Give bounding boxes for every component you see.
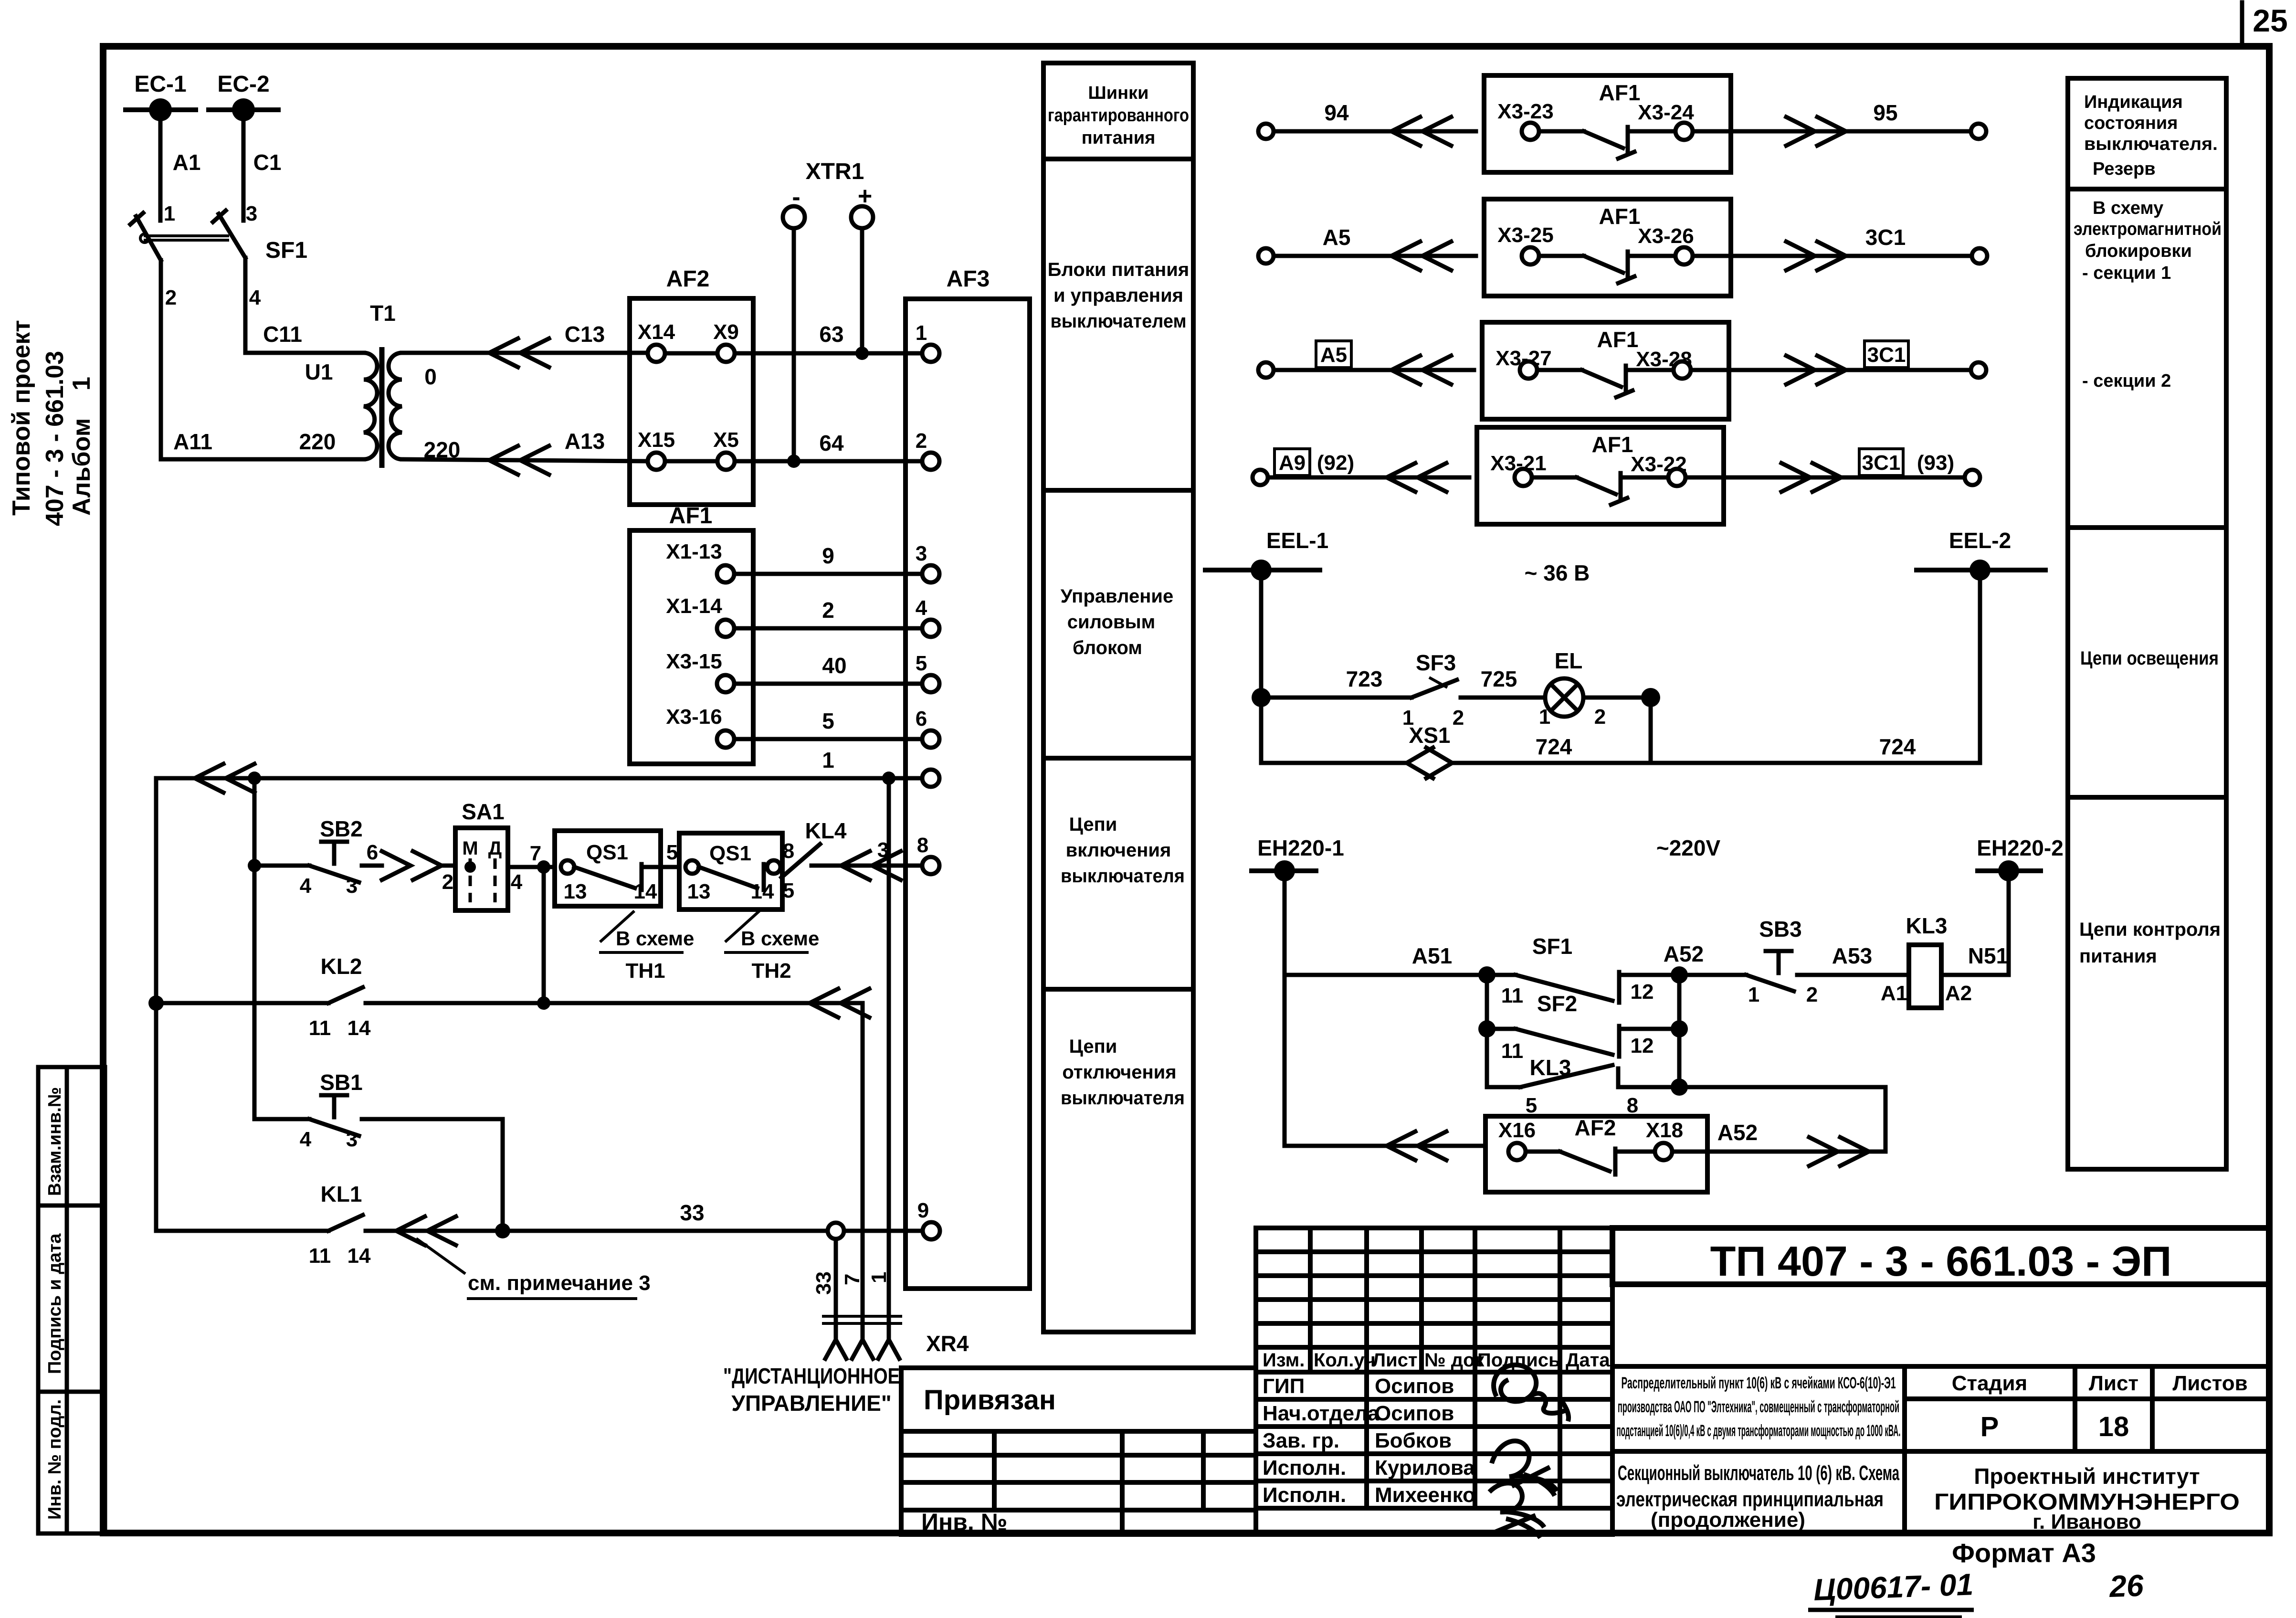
junction wire1 branch — [882, 772, 895, 785]
svg-text:X15: X15 — [638, 428, 675, 452]
sheet name text — [1616, 1461, 1899, 1532]
junction SF2 right — [1671, 1020, 1688, 1037]
svg-text:KL1: KL1 — [321, 1182, 362, 1206]
junction SF2 left — [1478, 1020, 1496, 1037]
svg-text:состояния: состояния — [2084, 113, 2178, 133]
svg-text:9: 9 — [917, 1199, 929, 1222]
svg-text:Взам.инв.№: Взам.инв.№ — [45, 1087, 65, 1196]
svg-text:3: 3 — [246, 202, 257, 225]
svg-text:XR4: XR4 — [926, 1331, 969, 1356]
svg-text:отключения: отключения — [1062, 1062, 1176, 1083]
svg-text:A53: A53 — [1832, 943, 1872, 968]
wire 1 — [156, 748, 922, 793]
left branch vertical — [1485, 975, 1489, 1087]
svg-text:Индикация: Индикация — [2084, 92, 2183, 112]
svg-text:X16: X16 — [1498, 1119, 1536, 1142]
svg-text:Формат А3: Формат А3 — [1952, 1538, 2096, 1568]
row1 right terminal — [1971, 124, 1986, 139]
svg-text:X5: X5 — [713, 428, 739, 452]
svg-text:Инв. № подл.: Инв. № подл. — [45, 1399, 65, 1520]
svg-text:Осипов: Осипов — [1375, 1402, 1454, 1425]
svg-text:A52: A52 — [1664, 941, 1704, 966]
bus EEL-2 — [1914, 528, 2048, 581]
svg-text:5: 5 — [1526, 1094, 1537, 1117]
pin X3-15 — [666, 650, 734, 692]
svg-text:питания: питания — [2079, 946, 2157, 967]
wire 3 to AF3 pin 8 — [811, 838, 922, 880]
svg-text:X14: X14 — [638, 320, 675, 344]
svg-text:В схеме: В схеме — [616, 927, 694, 950]
wire 33 — [680, 1200, 923, 1239]
label Цепи отключения выключателя — [1061, 1036, 1185, 1109]
svg-text:ТН1: ТН1 — [625, 959, 665, 983]
wire 95 — [1693, 100, 1971, 146]
svg-text:11: 11 — [1501, 984, 1524, 1007]
AF3 pin 9 — [917, 1199, 940, 1239]
svg-text:SB2: SB2 — [320, 816, 362, 841]
svg-text:AF2: AF2 — [1575, 1115, 1616, 1140]
wire 63 — [735, 322, 922, 353]
svg-text:8: 8 — [917, 834, 928, 857]
svg-text:A1: A1 — [173, 150, 201, 175]
svg-text:XTR1: XTR1 — [806, 159, 864, 184]
svg-text:4: 4 — [249, 286, 261, 309]
svg-text:1: 1 — [1748, 983, 1759, 1006]
left stamp boxes — [38, 1067, 105, 1533]
svg-text:EH220-2: EH220-2 — [1977, 835, 2064, 860]
AF1 contact box row4 — [1477, 427, 1724, 524]
svg-text:18: 18 — [2098, 1411, 2129, 1442]
svg-text:(продолжение): (продолжение) — [1651, 1508, 1805, 1532]
svg-text:Типовой проект: Типовой проект — [8, 320, 35, 516]
wire A52 from X18 — [1672, 1120, 1885, 1166]
svg-text:5: 5 — [783, 879, 794, 902]
svg-text:7: 7 — [530, 842, 541, 865]
svg-text:C11: C11 — [263, 322, 302, 347]
signature name labels — [1375, 1375, 1475, 1507]
svg-text:силовым: силовым — [1067, 612, 1156, 633]
svg-text:12: 12 — [1631, 1034, 1654, 1058]
svg-text:включения: включения — [1066, 840, 1171, 861]
wire 5 — [734, 709, 922, 739]
project name text — [1617, 1374, 1901, 1440]
svg-text:Резерв: Резерв — [2093, 159, 2156, 179]
svg-text:AF1: AF1 — [1592, 432, 1633, 457]
connector block AF2 (upper) — [630, 266, 753, 505]
wire EEL-1 down — [1259, 570, 1264, 763]
svg-text:U1: U1 — [305, 360, 333, 384]
junction right of lamp — [1641, 688, 1660, 707]
wire boxed A9 (92) — [1268, 449, 1469, 492]
switch SF3 — [1402, 650, 1545, 730]
svg-text:7: 7 — [841, 1274, 864, 1285]
svg-text:EH220-1: EH220-1 — [1257, 835, 1344, 860]
svg-text:3: 3 — [916, 542, 927, 565]
AF3 pin 2 — [916, 429, 939, 470]
label ДИСТАНЦИОННОЕ УПРАВЛЕНИЕ — [723, 1364, 900, 1416]
label Блоки питания и управления выключателем — [1048, 259, 1189, 332]
svg-text:блоком: блоком — [1073, 637, 1142, 658]
svg-text:14: 14 — [751, 880, 774, 903]
svg-text:Дата: Дата — [1566, 1350, 1610, 1371]
svg-text:25: 25 — [2253, 3, 2287, 38]
svg-text:5: 5 — [916, 652, 927, 675]
transformer T1 — [305, 301, 461, 468]
row [A5]/[3C1]: left terminal — [1258, 362, 1274, 378]
wire loop to KL3 row — [1884, 1087, 1888, 1152]
svg-text:5: 5 — [666, 841, 678, 864]
svg-text:выключателя: выключателя — [1061, 1088, 1185, 1109]
wire 40 — [734, 653, 922, 684]
svg-text:SF2: SF2 — [1537, 991, 1577, 1016]
title block: Привязан box — [901, 1368, 1256, 1431]
junction 7/KL2 — [537, 996, 550, 1010]
SF1 mechanical link — [140, 234, 229, 243]
right label column — [2068, 78, 2226, 1169]
label В схему электромагнитной блокировки — [2074, 198, 2222, 391]
svg-text:725: 725 — [1481, 666, 1517, 691]
svg-text:1: 1 — [867, 1272, 891, 1283]
page number tick — [2240, 2, 2244, 44]
svg-text:2: 2 — [1594, 705, 1606, 729]
svg-text:A2: A2 — [1945, 982, 1972, 1005]
inventory underline — [1808, 1608, 1974, 1612]
breaker SF1 pole C blade — [213, 211, 245, 258]
svg-text:питания: питания — [1082, 128, 1156, 148]
row4 right terminal — [1965, 470, 1980, 485]
svg-text:407 - 3 - 661.03: 407 - 3 - 661.03 — [41, 351, 69, 526]
wire SB1 down — [501, 1119, 505, 1231]
svg-text:33: 33 — [812, 1271, 835, 1295]
svg-text:блокировки: блокировки — [2085, 241, 2192, 261]
wire A51 — [1285, 943, 1487, 975]
svg-text:4: 4 — [511, 870, 523, 894]
contact KL4 — [781, 818, 847, 878]
AF1 contact box row2 — [1484, 199, 1731, 296]
contact box AF2 (lower) — [1485, 1115, 1707, 1192]
svg-text:и управления: и управления — [1053, 285, 1183, 306]
connector XTR1 — [783, 159, 873, 228]
svg-text:SB1: SB1 — [320, 1070, 362, 1095]
title block right structure — [1612, 1366, 2269, 1534]
svg-text:Подпись и дата: Подпись и дата — [45, 1233, 65, 1374]
svg-text:KL2: KL2 — [321, 954, 362, 979]
svg-text:Цепи освещения: Цепи освещения — [2080, 648, 2219, 669]
svg-text:9: 9 — [822, 543, 834, 568]
wire A5 — [1274, 225, 1476, 270]
svg-text:(93): (93) — [1917, 451, 1954, 475]
svg-text:X3-25: X3-25 — [1497, 223, 1553, 247]
revision header labels — [1263, 1350, 1610, 1371]
pin X5 — [713, 428, 739, 470]
svg-text:(92): (92) — [1317, 451, 1354, 475]
svg-text:3C1: 3C1 — [1867, 343, 1906, 367]
wire up to EEL-2 — [1978, 570, 1982, 763]
selector switch SA1 — [442, 799, 523, 910]
svg-text:723: 723 — [1346, 666, 1383, 691]
junction A52 — [1671, 966, 1688, 983]
svg-text:AF1: AF1 — [1599, 80, 1641, 105]
svg-text:4: 4 — [300, 874, 312, 898]
junction A51 — [1478, 966, 1496, 983]
svg-text:2: 2 — [822, 598, 834, 623]
svg-text:A13: A13 — [565, 429, 605, 454]
svg-text:14: 14 — [634, 880, 657, 903]
svg-text:выключателя: выключателя — [1061, 866, 1185, 887]
wire 9 — [734, 543, 922, 574]
svg-text:X18: X18 — [1646, 1119, 1683, 1142]
svg-text:26: 26 — [2108, 1568, 2144, 1604]
svg-text:13: 13 — [564, 880, 587, 903]
designation band ТП 407-3-661.03-ЭП — [1612, 1228, 2269, 1285]
svg-text:Лист: Лист — [1372, 1350, 1418, 1371]
svg-text:C13: C13 — [565, 322, 605, 347]
inner rail — [253, 778, 257, 1119]
svg-text:T1: T1 — [370, 301, 396, 326]
svg-text:- секции 1: - секции 1 — [2082, 263, 2171, 283]
svg-text:12: 12 — [1631, 980, 1654, 1004]
svg-text:A5: A5 — [1320, 343, 1347, 367]
institute name — [1934, 1464, 2240, 1533]
pin X3-16 — [666, 705, 734, 748]
svg-text:3: 3 — [346, 874, 358, 898]
junction 64/minus — [787, 455, 800, 468]
svg-text:Д: Д — [488, 838, 502, 859]
wire X14-X9 — [665, 351, 717, 356]
svg-text:Шинки: Шинки — [1088, 83, 1149, 103]
row2 right terminal — [1972, 248, 1987, 264]
wire 7 down — [542, 867, 546, 1003]
svg-text:2: 2 — [442, 870, 453, 894]
svg-text:SB3: SB3 — [1759, 917, 1801, 941]
AF3 pin 8 — [917, 834, 939, 874]
svg-text:AF1: AF1 — [1599, 204, 1641, 229]
svg-text:X3-16: X3-16 — [666, 705, 722, 729]
AF3 pin 5 — [916, 652, 939, 692]
svg-text:QS1: QS1 — [586, 841, 628, 864]
wire lamp to junction — [1583, 696, 1651, 700]
wire C13 — [402, 322, 648, 367]
bus EH220-2 — [1975, 835, 2064, 881]
wire boxed 3C1 — [1691, 341, 1971, 384]
wire C1 — [243, 110, 281, 225]
svg-text:Р: Р — [1980, 1411, 1999, 1442]
svg-text:2: 2 — [1453, 706, 1464, 730]
svg-text:8: 8 — [1627, 1094, 1638, 1117]
wire N51 — [1941, 871, 2009, 975]
svg-text:A52: A52 — [1717, 1120, 1758, 1145]
tag В схеме ТН2 — [724, 911, 819, 983]
svg-text:"ДИСТАНЦИОННОЕ: "ДИСТАНЦИОННОЕ — [723, 1364, 900, 1388]
svg-text:подстанцией 10(6)/0,4 кВ с дву: подстанцией 10(6)/0,4 кВ с двумя трансфо… — [1617, 1422, 1901, 1440]
svg-text:Зав. гр.: Зав. гр. — [1263, 1429, 1339, 1452]
wire A1 — [160, 110, 200, 225]
svg-text:Бобков: Бобков — [1375, 1429, 1452, 1452]
central label column — [1043, 63, 1193, 1332]
svg-text:4: 4 — [300, 1128, 312, 1151]
row 94/95: left terminal — [1258, 124, 1274, 139]
AF3 pin 6 — [916, 707, 939, 748]
svg-text:производства ОАО ПО "Элтехника: производства ОАО ПО "Элтехника", совмеще… — [1618, 1398, 1899, 1416]
handwritten inventory number — [1813, 1567, 2144, 1607]
svg-text:Блоки питания: Блоки питания — [1048, 259, 1189, 280]
svg-text:В схему: В схему — [2093, 198, 2163, 218]
svg-text:3C1: 3C1 — [1862, 451, 1901, 475]
wire EH220-1 down — [1283, 871, 1287, 1146]
svg-text:5: 5 — [822, 709, 834, 733]
svg-text:A9: A9 — [1279, 451, 1306, 475]
svg-text:A5: A5 — [1323, 225, 1351, 250]
wire from XTR1 plus — [860, 228, 864, 353]
wire 64 — [735, 431, 922, 461]
svg-text:SF3: SF3 — [1416, 650, 1456, 675]
svg-text:Проектный институт: Проектный институт — [1974, 1464, 2200, 1489]
svg-text:Альбом 1: Альбом 1 — [68, 377, 95, 516]
contact KL1 — [156, 1182, 828, 1268]
label Шинки гарантированного питания — [1048, 83, 1189, 148]
svg-text:Листов: Листов — [2172, 1372, 2247, 1395]
contact SF2 — [1487, 991, 1679, 1063]
svg-text:- секции 2: - секции 2 — [2082, 371, 2171, 391]
wire 3C1 — [1693, 225, 1972, 270]
contact SF1 (aux) — [1487, 934, 1679, 1007]
svg-text:X3-24: X3-24 — [1638, 101, 1694, 124]
svg-text:11: 11 — [309, 1244, 331, 1268]
svg-text:см. примечание 3: см. примечание 3 — [468, 1271, 651, 1295]
signature role labels — [1263, 1375, 1380, 1507]
button SB3 — [1679, 917, 1909, 1006]
svg-text:3: 3 — [346, 1128, 358, 1151]
wire 724 left part — [1261, 761, 1407, 765]
wire A11 — [161, 429, 364, 459]
svg-text:EC-1: EC-1 — [134, 72, 186, 97]
wire X15-X5 — [665, 459, 717, 464]
row3 right terminal — [1971, 362, 1986, 378]
wire 723 — [1261, 666, 1411, 698]
svg-text:AF2: AF2 — [666, 266, 710, 292]
svg-text:X3-23: X3-23 — [1497, 100, 1553, 123]
svg-text:724: 724 — [1536, 734, 1572, 759]
wire 1 down to XR4 — [887, 778, 891, 1337]
svg-text:выключателем: выключателем — [1051, 311, 1187, 332]
label Индикация состояния выключателя Резерв — [2084, 92, 2218, 179]
label Цепи включения выключателя — [1061, 814, 1185, 887]
wire X16 left — [1285, 1132, 1485, 1160]
svg-text:3C1: 3C1 — [1865, 225, 1906, 250]
contact KL3 — [1487, 1055, 1679, 1117]
connector XS1 — [1407, 723, 1452, 778]
junction 7 — [537, 860, 550, 874]
svg-text:Осипов: Осипов — [1375, 1375, 1454, 1398]
block AF3 — [906, 266, 1030, 1289]
svg-text:13: 13 — [687, 880, 711, 903]
svg-text:C1: C1 — [253, 150, 282, 175]
row A5/3C1: left terminal — [1258, 248, 1274, 264]
svg-text:2: 2 — [916, 429, 927, 453]
wire 6 — [367, 841, 455, 880]
svg-text:г. Иваново: г. Иваново — [2033, 1510, 2141, 1533]
svg-text:Цепи контроля: Цепи контроля — [2079, 919, 2221, 940]
svg-text:2: 2 — [1806, 983, 1818, 1006]
bus EH220-1 — [1249, 835, 1344, 881]
wire 94 — [1274, 100, 1476, 146]
svg-text:14: 14 — [348, 1016, 371, 1040]
wire 7 — [508, 842, 555, 867]
wire from XTR1 minus — [792, 228, 796, 461]
wire boxed 3C1 (93) — [1685, 449, 1965, 492]
svg-text:A1: A1 — [1881, 982, 1907, 1005]
svg-text:4: 4 — [916, 596, 927, 620]
svg-text:AF3: AF3 — [947, 266, 990, 292]
svg-text:Цепи: Цепи — [1069, 814, 1117, 835]
junction KL3 right — [1671, 1079, 1688, 1096]
svg-text:Привязан: Привязан — [924, 1385, 1056, 1416]
bus EEL-1 — [1203, 528, 1328, 581]
wire C11 — [245, 322, 364, 353]
svg-text:XS1: XS1 — [1409, 723, 1451, 748]
title block: revision table grid — [1256, 1228, 1612, 1534]
svg-text:SF1: SF1 — [265, 238, 307, 263]
relay coil KL3 — [1881, 913, 1972, 1008]
junction 723 — [1252, 688, 1271, 707]
pin X1-14 — [666, 594, 734, 637]
svg-text:1: 1 — [916, 321, 927, 345]
wire boxed A5 — [1274, 341, 1474, 384]
svg-text:A51: A51 — [1412, 943, 1452, 968]
svg-text:EEL-1: EEL-1 — [1266, 528, 1328, 553]
AF3 pin 7 — [922, 770, 939, 787]
svg-text:1: 1 — [1539, 705, 1550, 729]
svg-text:Лист: Лист — [2089, 1372, 2138, 1395]
svg-text:X3-15: X3-15 — [666, 650, 722, 673]
svg-text:KL3: KL3 — [1906, 913, 1948, 938]
pin X1-13 — [666, 540, 734, 582]
junction 63/plus — [855, 347, 869, 360]
junction inner rail top — [248, 772, 261, 785]
handwritten signatures — [1489, 1365, 1569, 1538]
svg-text:6: 6 — [916, 707, 927, 730]
svg-text:8: 8 — [783, 839, 794, 863]
AF3 pin 4 — [916, 596, 939, 637]
wire 724 right part — [1452, 734, 1980, 763]
junction left rail KL2 — [148, 995, 164, 1011]
svg-text:11: 11 — [1501, 1039, 1524, 1063]
wire 7 elbow to XR4 — [809, 989, 869, 1337]
pin X15 — [638, 428, 675, 470]
wire 2 — [734, 598, 922, 628]
svg-text:~ 36 B: ~ 36 B — [1525, 560, 1590, 585]
svg-text:64: 64 — [819, 431, 844, 455]
svg-text:KL4: KL4 — [805, 818, 847, 843]
svg-text:40: 40 — [822, 653, 846, 678]
svg-text:SA1: SA1 — [462, 799, 504, 824]
svg-text:Стадия: Стадия — [1952, 1372, 2027, 1395]
junction inner rail SB2 — [248, 859, 261, 872]
svg-text:Курилова: Курилова — [1375, 1456, 1475, 1480]
wire A13 — [402, 429, 648, 475]
title block: left grid — [901, 1431, 1256, 1534]
bus EC-1 — [123, 72, 198, 121]
svg-text:Исполн.: Исполн. — [1263, 1483, 1346, 1507]
svg-text:Нач.отдела: Нач.отдела — [1263, 1402, 1380, 1425]
svg-text:X1-14: X1-14 — [666, 594, 722, 618]
svg-text:94: 94 — [1324, 100, 1349, 125]
svg-text:гарантированного: гарантированного — [1048, 106, 1189, 126]
breaker SF1 pole A blade — [130, 213, 161, 260]
svg-text:Распределительный пункт 10(6): Распределительный пункт 10(6) кВ с ячейк… — [1622, 1374, 1896, 1392]
button SB1 — [254, 1070, 503, 1151]
svg-text:ТН2: ТН2 — [751, 959, 791, 983]
